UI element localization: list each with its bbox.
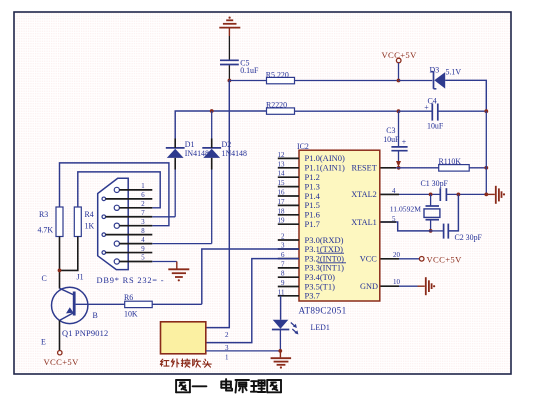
svg-text:5: 5 [141, 255, 145, 262]
DB9 pin 3 [114, 219, 152, 228]
wire base to R6 [76, 303, 125, 305]
junction C1/C2 rail [457, 193, 461, 197]
svg-text:B: B [93, 311, 98, 320]
svg-text:GND: GND [360, 282, 378, 291]
svg-text:VCC: VCC [360, 255, 378, 264]
wire DB9 pin7 to D1 [152, 216, 175, 218]
wire C3 to RESET node (arrow) [396, 152, 401, 168]
svg-text:P3.2(INT0): P3.2(INT0) [305, 253, 345, 263]
wire node to C4 [399, 110, 433, 112]
svg-text:C1 30pF: C1 30pF [421, 179, 449, 188]
svg-text:RESET: RESET [351, 164, 376, 173]
svg-text:C4: C4 [428, 97, 437, 106]
svg-text:R110K: R110K [439, 157, 462, 166]
pin 12 P1.0(AIN0) [278, 151, 346, 163]
svg-text:13: 13 [278, 160, 286, 168]
wire XTAL1 pin jog [380, 222, 431, 231]
ground (top, above C5) [219, 17, 240, 37]
svg-text:8: 8 [281, 270, 285, 278]
svg-text:10: 10 [393, 278, 401, 286]
capacitor C5 0.1uF [220, 59, 259, 76]
wire junction to R5 [229, 80, 266, 82]
wire LED to ground node [279, 330, 281, 351]
svg-text:1: 1 [141, 183, 144, 190]
svg-text:20: 20 [393, 251, 401, 259]
wire R1 to right rail [469, 167, 486, 169]
label 红外接收头 [160, 359, 211, 367]
DB9 pin 2 [114, 201, 152, 210]
power VCC+5V (emitter) [44, 351, 80, 368]
wire XTAL2 node to crystal [430, 194, 432, 206]
pin stub VCC [380, 258, 399, 260]
junction C4/right rail [484, 109, 488, 113]
DB9 pin 1 [114, 183, 152, 192]
wire DB9 pin4 to D2 [152, 243, 211, 245]
svg-text:4: 4 [141, 237, 145, 244]
svg-text:P1.7: P1.7 [305, 219, 320, 229]
svg-text:2: 2 [225, 331, 229, 339]
svg-text:4.7K: 4.7K [38, 226, 54, 235]
crystal 11.0592M [390, 205, 440, 220]
junction R3/R4/collector [58, 269, 62, 273]
svg-text:10K: 10K [124, 310, 138, 319]
svg-text:R2220: R2220 [266, 100, 287, 109]
svg-text:1K: 1K [85, 222, 95, 231]
transistor Q1 PNP9012 [41, 274, 108, 347]
svg-text:19: 19 [278, 217, 286, 225]
svg-text:R5 220: R5 220 [266, 71, 289, 80]
pin 6 P3.2(INT0) name with underline [305, 253, 347, 263]
svg-text:10uF: 10uF [383, 135, 400, 144]
pin 18 P1.6 [278, 207, 320, 219]
DB9 pin 4 [114, 237, 152, 246]
svg-text:16: 16 [278, 189, 286, 197]
svg-text:DB9* RS 232= -: DB9* RS 232= - [97, 276, 165, 285]
svg-text:+: + [402, 138, 407, 147]
pin 16 P1.4 [278, 189, 321, 201]
wire R5 to VCC node [295, 80, 399, 82]
svg-text:3: 3 [141, 219, 145, 226]
wire right rail C4 to ground line [485, 111, 487, 194]
wire C1 to ground node [446, 193, 486, 195]
resistor R6 10K [124, 293, 152, 318]
ground (right, xtal) [486, 186, 505, 204]
diode D3 5.1V zener [430, 65, 462, 89]
svg-text:+: + [424, 103, 429, 112]
wire D3 to right rail [445, 80, 486, 111]
wire crystal to XTAL1 line [430, 220, 432, 231]
pin 9 P3.x row [278, 279, 335, 291]
pin 6 P3.x row [278, 251, 299, 259]
svg-text:IC2: IC2 [297, 142, 309, 151]
svg-text:XTAL2: XTAL2 [351, 190, 377, 199]
wire node to D3 [399, 80, 433, 82]
svg-text:AT89C2051: AT89C2051 [299, 305, 347, 315]
junction R2/C4/VCC rail [397, 109, 401, 113]
svg-text:11.0592M: 11.0592M [390, 205, 421, 214]
pin 8 P3.x row [278, 270, 335, 282]
wire RESET pin to R1 [380, 167, 439, 169]
wire R6 to TXD riser [152, 303, 202, 305]
wire P3.7 to LED [280, 296, 282, 320]
wire C5 to junction [228, 65, 230, 80]
wire C5 riser to IR pin2 [206, 81, 229, 328]
wire D2 cathode up to R2 line [211, 111, 213, 148]
caption 图一 电原理图 [176, 379, 281, 393]
ground (pin 10) [418, 277, 436, 295]
DB9 pin 8 [102, 228, 152, 237]
pin 14 P1.2 [278, 170, 320, 182]
capacitor C4 10uF [424, 97, 444, 131]
svg-text:9: 9 [281, 279, 285, 287]
pin 13 P1.1(AIN1) [278, 160, 346, 172]
svg-text:R6: R6 [124, 293, 133, 302]
pin stub XTAL2 [380, 193, 399, 195]
wire INT0 riser to IR pin3 (P3.2) [206, 259, 299, 343]
wire D1 anode down to DB9 pin7 [174, 158, 176, 217]
resistor R4 1K [74, 207, 94, 237]
svg-text:15: 15 [278, 179, 286, 187]
DB9 pin 5 [114, 255, 152, 264]
resistor R3 4.7K [38, 207, 64, 237]
pin 11 P3.x row [278, 288, 320, 300]
junction D2/R2 line [210, 109, 214, 113]
svg-text:14: 14 [278, 170, 286, 178]
svg-text:0.1uF: 0.1uF [240, 66, 259, 75]
svg-text:P3.7: P3.7 [305, 291, 320, 301]
resistor R2 220 [266, 100, 295, 114]
svg-text:C2 30pF: C2 30pF [455, 233, 483, 242]
svg-text:5.1V: 5.1V [446, 68, 462, 77]
wire DB9 pin5 to ground [152, 261, 177, 263]
wire C2 up to ground rail [448, 194, 458, 231]
svg-text:2: 2 [281, 233, 285, 241]
wire R4 bottom jog [60, 237, 78, 271]
svg-text:E: E [41, 338, 46, 347]
svg-text:XTAL1: XTAL1 [351, 218, 377, 227]
power VCC+5V (top right) [382, 50, 418, 63]
wire D2 anode down to DB9 pin4 [211, 158, 213, 244]
wire ground to C5 [228, 36, 230, 60]
svg-text:7: 7 [141, 210, 145, 217]
pin stub XTAL1 [380, 221, 396, 223]
svg-text:12: 12 [278, 151, 286, 159]
svg-text:17: 17 [278, 198, 286, 206]
wire XTAL1 to C2 [431, 230, 444, 232]
capacitor C3 10uF [383, 126, 407, 151]
pin stub RESET [380, 167, 396, 169]
svg-text:7: 7 [281, 260, 285, 268]
pin stub GND [380, 285, 399, 287]
DB9 pin 6 [102, 192, 152, 201]
LED LED1 [272, 320, 330, 335]
pin 2 P3.x row [278, 233, 344, 245]
junction right rail/ground [484, 193, 488, 197]
resistor R5 220 [266, 71, 295, 84]
wire D1 corner to R2 [175, 111, 266, 148]
connector J1 DB9 outline [98, 178, 129, 269]
svg-text:9: 9 [141, 246, 145, 253]
diode D1 1N4148 [166, 140, 209, 158]
wire R3 bottom to collector [59, 237, 61, 289]
power VCC+5V (pin 20) [419, 255, 462, 265]
junction C3/RESET [397, 166, 401, 170]
wire DB9 pin3 loop to R3 [60, 163, 169, 226]
pin 19 P1.7 [278, 217, 320, 229]
ground (below LED) [271, 351, 292, 369]
pin 7 P3.x row [278, 260, 344, 272]
capacitor C2 30pF [444, 224, 483, 242]
diode D2 1N4148 [202, 140, 247, 158]
junction C5/R5/IR-pin2 [228, 79, 232, 83]
wire IR pin1 to LED node [206, 350, 280, 352]
DB9 pin 7 [102, 210, 152, 219]
junction LED/IR pin1 [278, 349, 282, 353]
wire VCC terminal down [398, 63, 400, 81]
wire GND pin 10 [380, 285, 418, 287]
wire TXD riser (P3.1) [202, 249, 299, 304]
svg-text:J1: J1 [77, 272, 84, 281]
pin 3 P3.x row [278, 242, 299, 250]
wire R2 to C4 node [295, 110, 399, 112]
svg-text:Q1 PNP9012: Q1 PNP9012 [62, 329, 108, 338]
svg-text:2: 2 [141, 201, 145, 208]
junction R1/right rail [484, 166, 488, 170]
svg-text:1: 1 [225, 354, 229, 362]
svg-text:18: 18 [278, 207, 286, 215]
pin 17 P1.5 [278, 198, 320, 210]
wire XTAL2 pin to C1 [380, 193, 440, 195]
op-amp/IC U1: AT89C2051 body [297, 142, 380, 316]
junction XTAL2/crystal [429, 193, 433, 197]
svg-text:10uF: 10uF [427, 121, 444, 130]
svg-text:R3: R3 [39, 210, 48, 219]
wire DB9 pin2 loop to R4 [78, 172, 160, 208]
resistor R1 10K [439, 157, 470, 171]
svg-text:1N4148: 1N4148 [222, 149, 247, 158]
wire VCC rail down to C3 [398, 111, 400, 146]
junction VCC/R5/D3 [397, 79, 401, 83]
svg-text:P3.1(TXD): P3.1(TXD) [305, 244, 344, 254]
svg-text:8: 8 [141, 228, 145, 235]
svg-text:VCC+5V: VCC+5V [427, 255, 463, 265]
capacitor C1 [440, 188, 446, 201]
svg-text:VCC+5V: VCC+5V [44, 357, 80, 367]
junction crystal/XTAL1 [429, 229, 433, 233]
pin 15 P1.3 [278, 179, 320, 191]
DB9 pin 9 [102, 246, 152, 255]
wire VCC pin 20 [380, 258, 420, 260]
svg-text:R4: R4 [85, 210, 94, 219]
svg-text:LED1: LED1 [311, 323, 330, 332]
pin 3 P3.1(TXD) name with underline [305, 244, 345, 254]
svg-text:11: 11 [278, 288, 285, 296]
ground (DB9 pin5) [168, 262, 189, 282]
svg-text:D3: D3 [430, 65, 440, 74]
svg-text:6: 6 [141, 192, 145, 199]
wire D1 cathode up [174, 139, 176, 148]
wire C4 to right rail [438, 110, 487, 112]
wire emitter down to VCC [59, 320, 61, 350]
svg-text:C: C [42, 274, 47, 283]
IR receiver module 红外接收头 [161, 322, 206, 354]
